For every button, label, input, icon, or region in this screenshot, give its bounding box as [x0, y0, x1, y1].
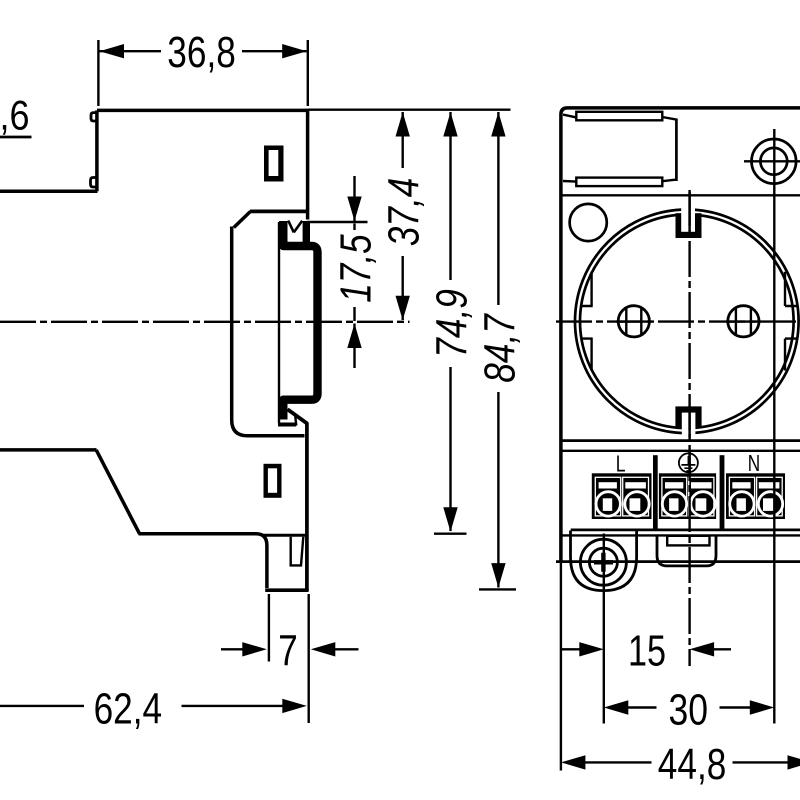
rail clip tab connectors — [563, 115, 676, 182]
svg-text:36,8: 36,8 — [167, 28, 236, 77]
cable guide inner rect — [667, 536, 709, 546]
svg-text:L: L — [616, 450, 626, 476]
svg-text:,6: ,6 — [0, 92, 30, 139]
pin hole left — [618, 306, 649, 337]
extension line screw top right — [773, 129, 775, 724]
chamfer at rail top left — [234, 211, 251, 227]
dim 7 arrow tails — [221, 648, 359, 650]
dim 17,5 top extension — [307, 221, 368, 223]
lower slot rectangle — [264, 464, 282, 498]
rail clip tab bottom bar — [576, 178, 662, 187]
centerline horizontal left view — [0, 321, 410, 323]
dim 74,9 vertical line — [449, 112, 451, 531]
dim 44,8 arrows — [561, 755, 586, 769]
svg-text:62,4: 62,4 — [94, 685, 163, 734]
line under clip area — [561, 194, 800, 196]
side body left vertical top — [95, 110, 99, 191]
snap hook lower — [91, 178, 97, 188]
dim 37,4 vertical line — [402, 112, 404, 320]
extension line module left — [560, 562, 562, 771]
centerline vertical — [688, 190, 690, 666]
bottom 74,9 extension — [434, 533, 467, 535]
earth clip bottom — [675, 406, 701, 437]
svg-text:17,5: 17,5 — [332, 234, 381, 303]
side recess right — [785, 272, 797, 371]
dim 7 extension lines — [269, 594, 309, 723]
terminal group N — [726, 473, 785, 519]
phillips cross — [594, 553, 613, 572]
terminal group L — [592, 473, 652, 519]
dim 7 arrows — [242, 642, 267, 656]
top slot rectangle — [264, 146, 284, 182]
terminal face top line — [561, 450, 800, 452]
dim 84,7 arrows — [491, 112, 505, 137]
rail clip tab top bar — [576, 112, 662, 121]
svg-text:15: 15 — [628, 627, 666, 676]
dim 44,8 line — [585, 761, 789, 763]
screw top right outer — [752, 139, 797, 184]
side body top line — [97, 109, 308, 113]
front bottom horizontal with corner to foot — [139, 534, 267, 588]
dim 74,9 arrows — [443, 112, 457, 137]
rail clip tab right edge — [675, 119, 678, 182]
front top horizontal — [0, 448, 97, 452]
svg-text:74,9: 74,9 — [428, 289, 477, 358]
separator bar right — [720, 455, 725, 529]
dim 30 line — [628, 706, 751, 708]
dim 62,4 arrow — [282, 699, 307, 713]
foot trapezoid slot — [291, 537, 304, 566]
dim 17,5 vertical line — [353, 176, 355, 368]
pin hole right — [728, 306, 759, 337]
separator bar left — [653, 455, 658, 529]
earth clip top: white notch then black U — [676, 206, 702, 239]
rail bottom junction bar — [278, 423, 296, 427]
socket plate bottom line — [561, 439, 800, 442]
screw bottom left outer — [580, 539, 626, 585]
dim 30 arrows — [604, 700, 629, 714]
housing bottom line over foot — [263, 534, 308, 537]
socket outer ring — [575, 209, 799, 433]
svg-text:30: 30 — [669, 686, 709, 735]
clip housing left vertical and bottom — [232, 227, 305, 436]
dim 17,5 arrows — [347, 197, 361, 222]
top extension to the right — [308, 108, 511, 110]
dim 37,4 arrows — [396, 112, 410, 137]
centerline horizontal right view — [556, 320, 800, 322]
dim 84,7 vertical line — [497, 112, 499, 588]
module outline top/left — [561, 108, 800, 562]
DIN rail profile — [283, 221, 317, 420]
lines below terminals — [571, 529, 800, 532]
V-notch edges — [288, 221, 302, 233]
screw bottom left inner — [589, 548, 617, 576]
snap hook upper — [91, 113, 97, 121]
svg-text:84,7: 84,7 — [475, 313, 524, 383]
svg-text:44,8: 44,8 — [658, 740, 727, 789]
dim 36,8 extension lines — [98, 40, 307, 106]
svg-text:37,4: 37,4 — [380, 178, 429, 247]
mounting boss bottom left — [571, 531, 637, 591]
cable guide U — [657, 536, 716, 566]
dim 36,8 arrows — [100, 44, 125, 58]
socket inner ring — [580, 214, 794, 428]
side recess left — [580, 272, 592, 371]
earth symbol — [679, 453, 698, 472]
release clip notch tick — [295, 417, 296, 426]
body bottom line at rail top — [250, 210, 309, 214]
small hole top left — [570, 204, 607, 241]
side body back edge upper — [306, 109, 310, 220]
module bottom line through screw center — [556, 560, 800, 563]
terminal group earth — [659, 473, 716, 519]
bottom 84,7 extension — [479, 588, 516, 590]
release clip diagonal — [288, 409, 308, 423]
side body top-left horizontal — [0, 190, 98, 194]
back edge lower vertical — [305, 423, 309, 592]
rail top junction bar — [303, 221, 310, 244]
dim 15 arrow tails — [562, 648, 731, 650]
dim 62,4 line — [0, 705, 283, 707]
dim ,6 underline — [0, 136, 32, 139]
foot bottom — [265, 588, 308, 592]
screw top right inner — [760, 148, 787, 175]
svg-text:7: 7 — [278, 626, 298, 675]
extension line screw bottom left — [603, 534, 605, 724]
front slope — [96, 450, 139, 534]
screw top right crosshair — [744, 160, 800, 162]
svg-text:N: N — [748, 450, 760, 476]
dim 15 arrows — [579, 642, 604, 656]
rail channel floor line — [278, 222, 280, 423]
dim 36,8 line — [100, 50, 307, 52]
